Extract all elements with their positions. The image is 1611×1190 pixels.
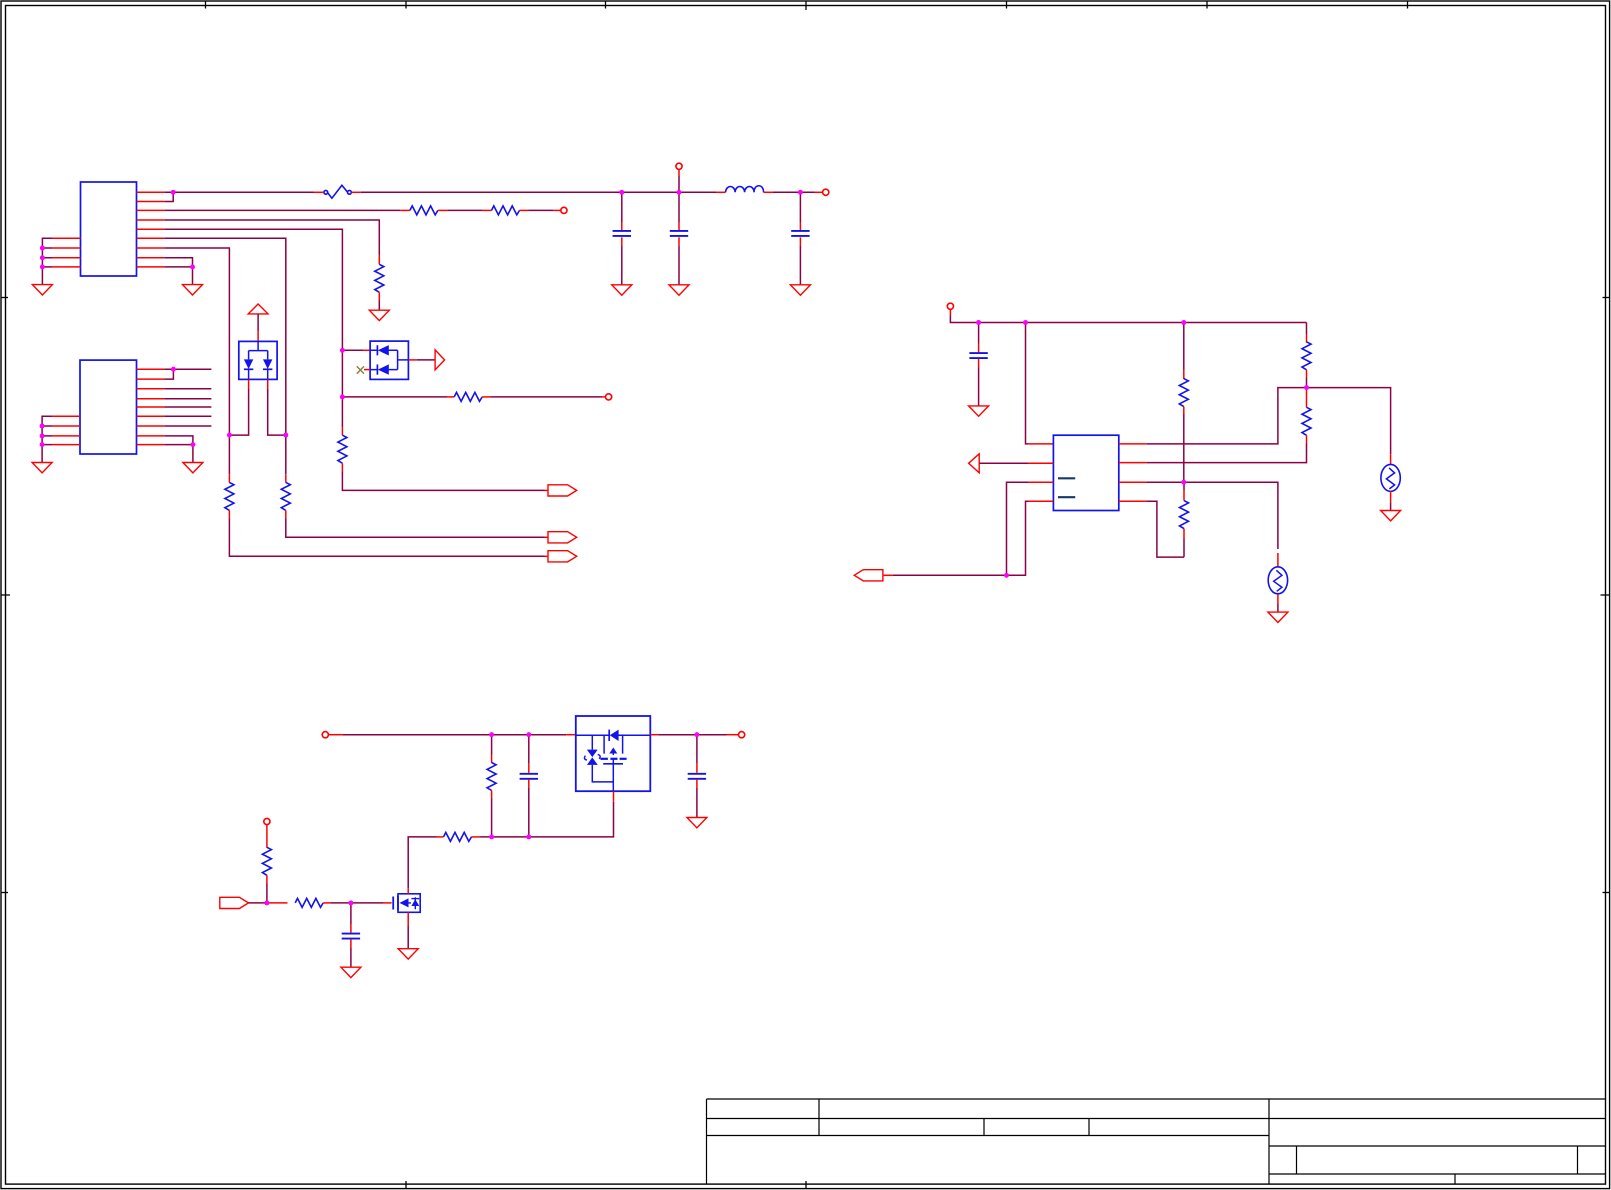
wire U1 left bus to ground [42, 238, 52, 284]
arrow port PA1 into U3 pin L2 [969, 454, 980, 473]
wire branch to D2 upper pin [342, 349, 363, 351]
U2 pin1/2 jog wire [164, 369, 211, 379]
port P8 circle with resistor R14 [264, 818, 270, 824]
title block [707, 1099, 1606, 1184]
wire VCC to D1 [257, 314, 259, 331]
MOSFET Q2 [393, 894, 420, 913]
wire net6 pin7 vertical chain [164, 248, 229, 474]
resistor R7 [225, 482, 234, 510]
wire net2 pin3 row [164, 209, 553, 211]
wire U3 pin R3 to lamp DS2 [1146, 482, 1278, 549]
resistor R9 top of right chain [1306, 323, 1308, 335]
power symbol VCC arrow [248, 304, 268, 314]
junction dots overlay [40, 190, 1309, 905]
capacitor C1 branch [621, 192, 623, 222]
dual diode D1 package [239, 341, 277, 379]
U2 right pin stubs [137, 369, 165, 444]
IC U2 body [80, 360, 137, 454]
wire U1 pin8/9 to ground [164, 258, 192, 285]
ground G10 [398, 949, 418, 959]
bullet port PB3 [548, 551, 577, 562]
capacitor C3 branch [799, 192, 801, 222]
port P2 circle right [815, 191, 823, 193]
no-connect X on D2 lower pin [364, 369, 370, 371]
capacitor C6 branch [696, 735, 698, 764]
U3 internal marks [1058, 477, 1075, 479]
wire bottom rail right [650, 734, 658, 736]
U2 left pin stubs [52, 416, 80, 444]
ground under C3 [790, 285, 810, 295]
port P6 circle left [322, 732, 328, 738]
port P3 circle [561, 207, 567, 213]
IC U3 body [1053, 435, 1118, 510]
port P7 circle right [739, 732, 745, 738]
U3 left pin stubs [1028, 463, 1053, 501]
ground under R3 [369, 310, 389, 320]
Q2 source to ground [407, 912, 409, 925]
capacitor C5 branch [528, 735, 530, 764]
resistor R12 branch [491, 735, 493, 755]
capacitor C2 branch [678, 192, 680, 222]
IC U1 body [81, 182, 137, 276]
dual diode D2 package [370, 341, 408, 379]
wire bottom rail left [343, 734, 566, 736]
wire net1 pins1-2 [164, 192, 622, 201]
capacitor C7 gate branch [350, 903, 352, 924]
wire junction to lamp DS1 [1307, 388, 1391, 455]
ground G7 [1268, 612, 1288, 622]
inductor L1 [726, 186, 764, 193]
D2 output wire and arrow port [408, 359, 416, 361]
resistor R13 [444, 832, 472, 841]
wire U3 pin L3 down [1007, 482, 1029, 575]
wire net4 pin5 vertical chain [164, 229, 342, 427]
wire top rail [949, 310, 951, 316]
lamp DS1 [1381, 464, 1400, 491]
ground G5 [969, 406, 989, 416]
bullet port PB4 left [854, 570, 883, 581]
ground G4 [183, 463, 203, 473]
U2 pin8/9 to ground [164, 436, 193, 463]
wire U3 pin L4 down to bullet port [893, 501, 1028, 575]
ground G6 [1381, 511, 1401, 521]
junction dots left bus [40, 246, 45, 251]
Q2 drain stub [407, 888, 409, 894]
port P1 circle above [678, 176, 680, 192]
U3 right pin stubs [1119, 444, 1147, 501]
ground under C1 [612, 285, 632, 295]
port P4 circle [606, 394, 612, 400]
resistor R15 gate series [267, 902, 288, 904]
wire rail to U3 pin L1 [1026, 323, 1029, 444]
U2 open stub wires [164, 389, 211, 426]
bullet port PB5 gate input [220, 897, 249, 908]
fuse F1 [324, 185, 351, 198]
wire net pinR1 [1146, 388, 1306, 444]
capacitor C4 branch [978, 323, 980, 344]
bullet port PB2 [548, 532, 577, 543]
ground G2 [183, 285, 203, 295]
ground under C2 [669, 285, 689, 295]
port P5 circle [947, 303, 953, 309]
wire net3 pin4 to resistor-ground [164, 220, 379, 255]
bullet port PB1 [548, 485, 577, 496]
wire net1 middle section with caps [622, 191, 815, 193]
ground G3 [32, 463, 52, 473]
big MOSFET block Q1 [576, 716, 651, 791]
resistor R3 [375, 264, 384, 292]
wire U3 pin R4 loop through resistor R11 [1146, 501, 1184, 557]
U1 left pin stubs [52, 238, 81, 267]
U1 right pin stubs [137, 192, 165, 267]
resistor R10 lower of right chain [1306, 388, 1308, 408]
resistor R4 [338, 435, 347, 463]
resistor R6 [281, 482, 290, 510]
resistor R8 on rail drop [1183, 323, 1185, 370]
resistor R5 [454, 392, 482, 401]
D1 pin wires down to junctions [248, 379, 250, 389]
ground G8 [687, 818, 707, 828]
ground G9 [341, 967, 361, 977]
resistor R1 [410, 206, 438, 215]
ground G1 [32, 285, 52, 295]
wire net5 pin6 vertical chain [164, 238, 285, 474]
U2 left bus to ground [42, 416, 52, 462]
lamp DS2 [1268, 567, 1287, 594]
wire Q1 bottom feedback row [613, 791, 615, 802]
wire branch resistor to port circle [342, 396, 447, 398]
resistor R2 [492, 206, 520, 215]
